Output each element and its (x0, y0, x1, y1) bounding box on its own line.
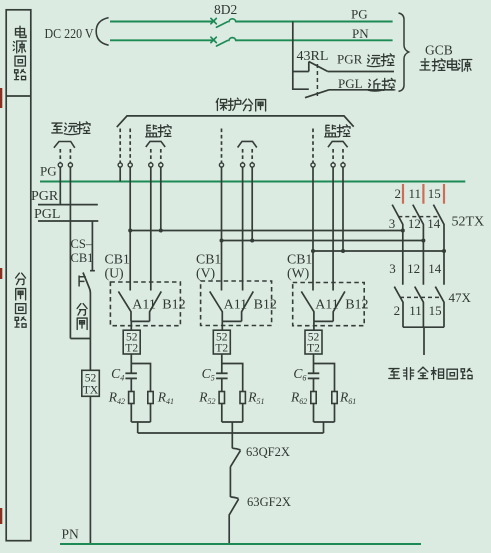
svg-text:PGR: PGR (337, 52, 363, 67)
wire 52TX to PN (89, 396, 91, 544)
svg-text:63GF2X: 63GF2X (247, 494, 292, 509)
contact A11 (W) (301, 291, 314, 321)
svg-text:PN: PN (352, 26, 369, 41)
52TX mechanical link (398, 216, 440, 218)
breaker aux box CB1(W) (293, 283, 365, 326)
wire C5 to R52 (221, 378, 223, 391)
svg-text:CB1: CB1 (287, 251, 312, 266)
contact output bus (W) (314, 321, 333, 330)
junction dots rail B (220, 239, 426, 243)
junction dots rail C (311, 249, 446, 253)
capacitor C4 (125, 373, 136, 378)
label 监控 (right) (325, 125, 350, 137)
svg-text:3: 3 (389, 216, 396, 231)
U snubber: node split (131, 354, 151, 392)
coil 52TX box (82, 370, 100, 396)
resistor R51 (240, 392, 245, 404)
wire remote to PGR (59, 167, 61, 204)
breaker aux box CB1(U) (110, 282, 180, 326)
resistor R52 (219, 392, 224, 404)
label PGR 远控 (337, 52, 394, 67)
svg-text:11: 11 (409, 303, 422, 318)
svg-text:(V): (V) (196, 265, 215, 281)
svg-text:(U): (U) (105, 265, 124, 281)
svg-text:T2: T2 (125, 343, 138, 355)
terminal circle (58, 163, 62, 167)
svg-text:63QF2X: 63QF2X (246, 444, 291, 459)
dashed lead to remote (right) (69, 149, 71, 163)
wire 43RL feeder from PG (293, 22, 309, 90)
trip bus joining remote and manual (70, 338, 90, 340)
svg-text:PN: PN (62, 527, 80, 542)
contact 63GF2X (229, 497, 239, 544)
brace GCB group (399, 13, 409, 91)
svg-text:PGL: PGL (338, 76, 363, 91)
contact 52TX pole 15-14 (433, 205, 444, 285)
contact A11 (U) (118, 291, 131, 321)
label 保护分闸 (216, 98, 265, 111)
switch 43RL lower contact (PGL) (305, 90, 329, 98)
sidebar frame 电源回路/分闸回路 (6, 10, 31, 541)
fuse-switch 8D2 upper pole (211, 18, 236, 27)
wire monitor to rail B (251, 167, 253, 240)
wire to A11(U) (129, 167, 131, 290)
contact A11 (V) (210, 291, 223, 321)
switch CS-CB1 blade (83, 273, 90, 339)
wire to 63QF2X (231, 433, 233, 448)
breaker aux box CB1(V) (201, 281, 272, 326)
label 至远控 (52, 122, 90, 135)
brace for DC source (96, 18, 108, 46)
junction dots rail A (128, 229, 405, 233)
rail C (W phase trip) (313, 250, 444, 252)
svg-text:T2: T2 (307, 343, 320, 355)
svg-text:12: 12 (408, 216, 421, 231)
contact B12 (V) (242, 291, 254, 321)
rail A (U phase trip) (130, 230, 403, 232)
svg-text:8D2: 8D2 (214, 2, 237, 17)
svg-text:A11: A11 (315, 297, 339, 312)
contact 47X pole 3-2 (394, 287, 403, 328)
fuse-switch 8D2 lower pole (211, 37, 236, 46)
wire to B12(V) (242, 167, 244, 290)
bracket 至远控 (54, 142, 75, 148)
wire PGL drop to switch (90, 221, 95, 271)
rail B (V phase trip) (222, 240, 424, 242)
svg-text:52TX: 52TX (452, 215, 485, 230)
svg-text:3: 3 (389, 261, 396, 276)
label 监控 (left) (146, 125, 171, 137)
resistor R41 (148, 392, 153, 404)
svg-text:B12: B12 (345, 297, 368, 312)
svg-text:PGR: PGR (31, 189, 59, 204)
wire to A11(V) (221, 167, 223, 290)
bracket middle (protection pair) (238, 141, 257, 147)
red terminal stubs 52TX (403, 184, 444, 204)
wire to A11(W) (312, 167, 314, 290)
capacitor C6 (308, 373, 320, 378)
contact 52TX pole 11-12 (413, 205, 424, 285)
V snubber: node split (222, 354, 243, 392)
label PGL 近控 (338, 76, 395, 91)
rail PGL (38, 220, 98, 222)
wire PGL local (329, 89, 394, 91)
coil 52/T2 (V) box (213, 330, 230, 354)
dashed lead to remote (left) (59, 149, 61, 163)
contact 52TX pole 2-3 (392, 205, 403, 285)
47X output bus (403, 327, 444, 355)
svg-text:2: 2 (395, 186, 402, 201)
label GCB 主控电源 (420, 43, 472, 72)
capacitor C5 (216, 373, 228, 378)
bracket 监控 left (146, 141, 165, 147)
wire to B12(U) (150, 167, 152, 290)
wire remote to trip bus (69, 167, 71, 338)
wire PGR remote (328, 71, 394, 73)
switch 43RL upper contact (PGR) (309, 62, 328, 72)
coil 52/T2 (W) box (305, 330, 322, 354)
resistor R42 (129, 392, 134, 404)
terminal circles row (118, 163, 345, 167)
svg-text:PG: PG (40, 164, 57, 179)
sidebar label 分闸回路 (15, 273, 26, 327)
wire protection tap to PG (119, 167, 121, 181)
wire monitor to rail C (342, 167, 344, 251)
svg-text:GCB: GCB (425, 43, 453, 58)
U snubber rejoin bus (131, 404, 150, 434)
svg-text:A11: A11 (224, 297, 248, 312)
svg-text:DC 220 V: DC 220 V (45, 27, 94, 42)
wire C4 to R42 (130, 378, 132, 391)
svg-text:PG: PG (351, 7, 368, 22)
terminal circle (68, 163, 72, 167)
svg-text:11: 11 (408, 186, 421, 201)
contact output bus (V) (222, 321, 241, 330)
svg-text:TX: TX (83, 385, 99, 397)
W snubber: node split (314, 354, 335, 392)
svg-text:B12: B12 (254, 297, 277, 312)
contact output bus (U) (131, 321, 150, 330)
svg-text:(W): (W) (287, 265, 309, 281)
wire PG top (green) (110, 22, 393, 41)
wire C6 to R62 (313, 378, 315, 391)
svg-text:CB1: CB1 (196, 251, 221, 266)
svg-text:43RL: 43RL (297, 49, 329, 64)
wire monitor to rail A (160, 167, 162, 230)
svg-text:T2: T2 (215, 343, 228, 355)
bracket 保护分闸 (long) (117, 116, 354, 127)
rail PN (green) (60, 543, 421, 545)
47X mechanical link (400, 296, 441, 298)
resistor R61 (332, 392, 337, 404)
svg-text:A11: A11 (132, 297, 156, 312)
contact 47X pole 12-11 (415, 287, 424, 328)
wire bus to 52TX coil (89, 339, 91, 371)
svg-text:CB1: CB1 (71, 251, 94, 265)
rail PG (green) (40, 181, 465, 183)
svg-text:14: 14 (428, 261, 442, 276)
svg-text:15: 15 (428, 186, 441, 201)
contact B12 (U) (150, 291, 162, 321)
dashed protection leads with terminals (120, 129, 343, 163)
svg-text:2: 2 (394, 303, 401, 318)
label 分闸 (vertical) (77, 304, 87, 330)
svg-text:12: 12 (407, 261, 420, 276)
page-edge red marks (0, 88, 2, 524)
svg-text:CB1: CB1 (105, 251, 130, 266)
W snubber rejoin bus (314, 404, 335, 434)
svg-text:52: 52 (85, 373, 97, 385)
coil 52/T2 (U) box (123, 330, 140, 354)
svg-text:CS–: CS– (71, 237, 93, 251)
rail PGR (38, 204, 98, 206)
label 至非全相回路 (389, 367, 472, 380)
sidebar label 电源回路 (13, 26, 26, 80)
contact B12 (W) (333, 291, 345, 321)
svg-text:PGL: PGL (34, 207, 60, 222)
resistor R62 (311, 392, 316, 404)
bracket 监控 right (328, 141, 348, 147)
V snubber rejoin bus (222, 404, 243, 434)
svg-text:14: 14 (427, 216, 441, 231)
contact 47X pole 14-15 (435, 287, 444, 328)
43RL mechanical link (dashed) (316, 64, 318, 98)
manual operator flag (79, 276, 86, 287)
svg-text:47X: 47X (449, 290, 472, 305)
wire to B12(W) (332, 167, 334, 290)
collector wire (138, 432, 324, 434)
svg-text:B12: B12 (162, 297, 185, 312)
contact 63QF2X (230, 448, 240, 497)
svg-text:15: 15 (429, 303, 442, 318)
